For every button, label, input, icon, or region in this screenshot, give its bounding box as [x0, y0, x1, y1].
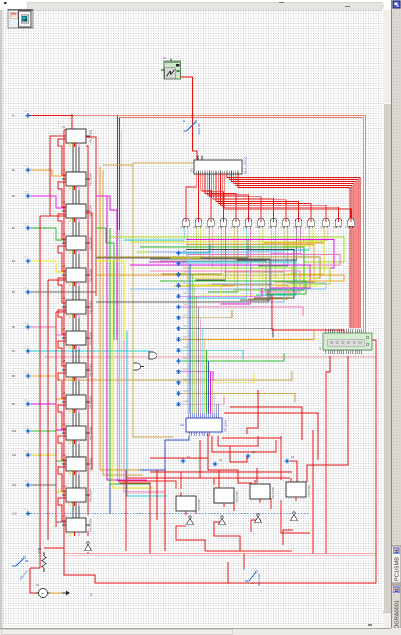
wire probe Q10 — [182, 350, 244, 359]
counter IC U1 74LS193N — [62, 126, 93, 143]
wire chip pin 18 to connector — [234, 174, 354, 328]
probe P4 — [12, 224, 30, 231]
wire gate input D2 — [158, 228, 188, 247]
svg-text:U20: U20 — [191, 168, 194, 173]
AND gate G10 — [293, 218, 302, 230]
wire chain U10-U11 — [72, 440, 74, 457]
vertical scrollbar — [383, 10, 392, 628]
wire red loop U10-U11 — [58, 436, 66, 460]
wire weave W14 — [96, 275, 344, 281]
wire red loop U8-U9 — [58, 373, 66, 398]
wire probe P2 — [31, 170, 66, 176]
wire red net N20 — [228, 562, 376, 583]
wire bus to U21 pin 10 — [205, 350, 207, 413]
AND gate G8 — [268, 218, 277, 230]
wire gate input D9 — [174, 228, 234, 286]
wire bus left L4 — [110, 228, 150, 484]
wire bus to U21 pin 12 — [210, 372, 212, 414]
probe Q9 — [176, 336, 187, 341]
wire bus to U21 pin 1 — [187, 253, 189, 414]
svg-text:2.5V: 2.5V — [24, 509, 29, 511]
wire pink band lower 1 — [64, 553, 376, 555]
probe P13 — [12, 481, 30, 488]
svg-text:U38: U38 — [281, 226, 286, 229]
switch S2 — [243, 567, 261, 586]
wire red net N43 — [214, 522, 240, 551]
svg-text:M: M — [243, 567, 245, 571]
buffer A2 — [218, 516, 225, 525]
wire red net N38 — [44, 547, 64, 549]
wire U12 bottom stubs — [69, 502, 71, 506]
svg-text:74LS74N: 74LS74N — [271, 487, 275, 499]
wire bus to U21 pin 16 — [218, 404, 220, 414]
wire probe Q9 — [182, 331, 315, 339]
probe Q3 — [176, 272, 187, 277]
counter IC U10 74LS193N — [62, 423, 93, 440]
wire probe Q7 — [182, 310, 233, 318]
wire probe P11 — [31, 431, 66, 461]
wire top rail A — [72, 116, 366, 335]
probe P3 — [12, 192, 30, 199]
AND gate G7 — [256, 218, 265, 230]
wire chain U5-U6 — [72, 282, 74, 300]
wire U8 bottom stubs — [69, 377, 71, 381]
AND gate G3 — [206, 218, 215, 230]
wire weave W18 — [130, 283, 326, 289]
wire probe Q2 — [182, 264, 252, 273]
wire red net N7 — [120, 483, 151, 554]
buffer A5 — [84, 542, 91, 551]
wire red loop U11-U12 — [58, 467, 66, 491]
IC U22 — [176, 492, 201, 515]
probe Q12 — [176, 369, 188, 374]
wire gate input D1 — [124, 228, 184, 240]
AND gate G9 — [281, 218, 290, 230]
wire red net N14 — [287, 461, 297, 482]
svg-text:2.5V: 2.5V — [24, 372, 29, 374]
clock source X1 — [161, 57, 181, 79]
wire U9 bottom stubs — [69, 409, 71, 413]
wire red net N11 — [200, 440, 214, 485]
wire U4 bottom stubs — [69, 250, 71, 254]
wire U1 left feedback — [44, 136, 66, 216]
svg-text:2.5V: 2.5V — [24, 427, 29, 429]
wire red net N4 — [212, 436, 276, 452]
wire red net N28 — [150, 457, 208, 459]
wire gate input D13 — [199, 228, 259, 296]
wire red net N8 — [125, 470, 127, 551]
connector J2 — [318, 329, 372, 354]
wire bus to U21 pin 9 — [203, 339, 205, 413]
svg-text:U32: U32 — [206, 226, 211, 229]
wire bus to U21 pin 14 — [214, 393, 216, 413]
wire red net N18 — [281, 500, 310, 533]
wire probe P13 — [31, 485, 66, 522]
probe R1 — [181, 456, 191, 463]
wire red net N21 — [205, 550, 292, 552]
wire weave W10 — [186, 262, 296, 295]
svg-text:U42: U42 — [333, 226, 338, 229]
wire red net N41 — [270, 498, 272, 509]
AND gate G4 — [218, 218, 227, 230]
svg-text:2.5V: 2.5V — [24, 166, 29, 168]
wire chip pin 2 to gate 2 — [197, 174, 199, 218]
wire chip pin 5 to gate 5 — [205, 174, 236, 218]
svg-text:U34: U34 — [231, 226, 236, 229]
svg-text:74LS244: 74LS244 — [224, 420, 228, 432]
wire red net N22 — [243, 554, 245, 569]
right vertical tab 2 — [392, 585, 401, 631]
wire probe P9 — [31, 376, 66, 399]
wire tan upper jog — [103, 163, 216, 180]
wire chip pin 10 to gate 10 — [216, 174, 299, 218]
wire pink band lower 2 — [66, 555, 376, 557]
probe Q8 — [176, 326, 187, 331]
wire gate input D12 — [220, 228, 250, 304]
counter IC U9 74LS193N — [62, 392, 93, 409]
buffer A4 — [290, 512, 297, 521]
floating icon panel — [8, 10, 33, 29]
wire chip pin 14 to gate 14 — [225, 174, 351, 218]
probe R2 — [213, 459, 223, 466]
wire red loop U6-U7 — [58, 310, 66, 334]
counter IC U5 74LS193N — [62, 265, 93, 282]
blue IC U21 — [180, 414, 228, 437]
wire U1 top to rail — [71, 116, 73, 130]
svg-text:IN: IN — [12, 115, 15, 118]
wire weave W1 — [110, 237, 344, 262]
svg-text:B12: B12 — [12, 484, 17, 487]
svg-text:OGRA0001: OGRA0001 — [395, 600, 401, 629]
probe Q11 — [176, 358, 188, 363]
probe Q1 — [176, 250, 187, 255]
wire chip pin 13 to gate 13 — [223, 174, 339, 218]
wire probe Q5 — [182, 288, 263, 296]
svg-text:Space bar: Space bar — [197, 123, 201, 135]
svg-text:2.5V: 2.5V — [24, 288, 29, 290]
wire bus left L8 — [133, 163, 173, 437]
wire gate input D3 — [137, 228, 197, 252]
svg-text:K: K — [90, 592, 93, 597]
probe P2 — [12, 166, 30, 173]
wire gate input D14 — [233, 228, 263, 290]
svg-text:U21: U21 — [180, 424, 185, 427]
wire probe Q8 — [182, 329, 274, 338]
svg-text:2.5V: 2.5V — [24, 111, 29, 113]
IC U23 — [214, 484, 239, 507]
wire weave W3 — [130, 242, 324, 274]
probe R4 — [285, 456, 295, 463]
wire bus to U21 pin 7 — [199, 318, 201, 414]
wire probe P5 — [31, 261, 66, 272]
wire bus to U21 pin 5 — [195, 296, 197, 413]
wire probe Q4 — [182, 285, 222, 294]
wire red box-right R2 — [86, 213, 92, 470]
wire weave W6 — [186, 250, 294, 299]
wire red net N2 — [224, 413, 318, 460]
wire red box-right R1 — [86, 146, 88, 515]
switch J1 — [183, 119, 201, 135]
wire probe P8 — [31, 350, 150, 352]
probe P6 — [12, 288, 30, 295]
wire chain U2-U3 — [72, 186, 74, 204]
wire U3 bottom stubs — [69, 218, 71, 222]
wire U6 bottom stubs — [69, 314, 71, 318]
counter IC U7 74LS193N — [62, 328, 93, 345]
probe P1 — [12, 111, 30, 118]
top tab strip — [0, 0, 401, 10]
svg-text:74LS193N: 74LS193N — [89, 173, 93, 186]
svg-text:U10: U10 — [62, 423, 67, 426]
wire red net N39 — [195, 505, 197, 514]
wire weave W15 — [186, 278, 316, 286]
wire probe Q13 — [182, 375, 255, 383]
wire weave W12 — [186, 268, 330, 284]
svg-text:2.5V: 2.5V — [24, 400, 29, 402]
wire yellow jog — [96, 261, 124, 340]
svg-text:~: ~ — [41, 592, 44, 598]
bottom strip — [0, 628, 401, 635]
wire bus left L6 — [124, 300, 164, 492]
wire magenta jog — [96, 196, 117, 340]
buffer A3 — [254, 514, 261, 523]
svg-text:74LS74N: 74LS74N — [235, 491, 239, 503]
wire gate input D8 — [195, 228, 225, 280]
junction U1/rail — [71, 114, 73, 116]
wire red feedback F3 — [55, 312, 57, 527]
wire bus to U21 pin 8 — [201, 329, 203, 414]
wire probe P10 — [31, 404, 66, 430]
wire red net N36 — [87, 531, 89, 536]
wire chip pin 6 to gate 6 — [207, 174, 248, 218]
wire probe P4 — [31, 228, 66, 240]
wire red loop U4-U5 — [58, 246, 66, 271]
buffer A1 — [186, 516, 193, 525]
probe Q13 — [176, 380, 188, 385]
wire U1 bottom stubs — [69, 143, 71, 147]
svg-text:74LS74N: 74LS74N — [197, 499, 201, 511]
wire red loop U3-U4 — [58, 214, 66, 239]
counter IC U11 74LS193N — [62, 454, 93, 471]
wire weave W11 — [130, 265, 310, 288]
probe Q6 — [176, 304, 187, 309]
counter IC U12 74LS193N — [62, 485, 93, 502]
wire red net N1 — [218, 436, 258, 446]
probe P12 — [12, 451, 30, 458]
wire bus to U21 pin 11 — [208, 361, 210, 414]
wire chip pin 11 to gate 11 — [218, 174, 311, 218]
wire red net N25 — [312, 430, 314, 554]
wire probe P12 — [31, 455, 66, 492]
wire weave W13 — [150, 271, 300, 292]
AND gate G6 — [243, 218, 252, 230]
svg-text:2.5V: 2.5V — [24, 192, 29, 194]
wire probe Q3 — [182, 267, 293, 275]
wire chip pin 12 to gate 12 — [220, 174, 326, 218]
wire gate input D11 — [187, 228, 247, 298]
wire bus left L5 — [113, 261, 153, 488]
wire weave W2 — [186, 240, 334, 269]
AND gate G2 — [193, 218, 202, 230]
wire red net N34 — [30, 568, 38, 593]
wire chip pin 19 to connector — [236, 174, 352, 328]
wire weave W8 — [186, 255, 340, 266]
svg-text:U30: U30 — [181, 226, 186, 229]
probe P8 — [12, 347, 30, 354]
right vertical tab 1 (active) — [392, 546, 401, 583]
wire red net N6 — [118, 481, 177, 489]
AND gate G1 — [181, 218, 190, 230]
wire probe P7 — [31, 327, 66, 335]
wire red loop U7-U8 — [58, 341, 66, 366]
svg-text:U40: U40 — [306, 226, 311, 229]
wire red feedback F2 — [47, 280, 49, 540]
svg-text:B11: B11 — [12, 454, 17, 457]
probe Q14 — [176, 390, 188, 395]
svg-text:PC1/5MB: PC1/5MB — [395, 557, 401, 581]
wire red net N12 — [208, 434, 252, 483]
counter IC U6 74LS193N — [62, 297, 93, 314]
wire weave W16 — [160, 281, 306, 294]
wire grey double A — [150, 259, 270, 300]
probe R3 — [246, 451, 256, 458]
probe P5 — [12, 257, 30, 264]
wire red top rail A (probe segment) — [28, 115, 72, 117]
wire chain U6-U7 — [72, 314, 74, 331]
wire red loop U9-U10 — [58, 405, 66, 429]
wire bus to U21 pin 15 — [216, 404, 218, 413]
svg-text:74LS193N: 74LS193N — [89, 489, 93, 502]
wire red net N27 — [247, 390, 258, 434]
wire red net N31 — [218, 470, 220, 485]
wire red net N44 — [251, 520, 261, 532]
wire U7 bottom stubs — [69, 345, 71, 349]
wire red loop U12-U13 — [58, 498, 66, 521]
wire gate input D19 — [237, 228, 297, 260]
wire red net N5 — [272, 295, 344, 333]
wire chip pin 16 to connector — [229, 174, 358, 328]
svg-text:74LS74N: 74LS74N — [307, 485, 311, 497]
probe P11 — [12, 427, 30, 434]
switch S1 — [12, 557, 29, 581]
probe Q2 — [176, 261, 187, 266]
wire red loop U2-U3 — [58, 182, 66, 207]
wire red net N40 — [233, 500, 235, 511]
svg-text:U36: U36 — [256, 226, 261, 229]
wire gate input D24 — [298, 228, 328, 240]
canvas left edge — [0, 10, 3, 628]
arrow ground — [62, 591, 70, 596]
wire red net N16 — [326, 356, 330, 554]
svg-text:U35: U35 — [243, 226, 248, 229]
counter IC U13 74LS193N — [62, 515, 93, 532]
wire bus to U21 pin 6 — [197, 307, 199, 414]
wire U13 bottom stubs — [69, 532, 71, 536]
wire red box-right R3 — [86, 137, 96, 296]
wire probe Q12 — [182, 372, 214, 381]
counter IC U8 74LS193N — [62, 360, 93, 377]
right docking strip — [392, 0, 401, 635]
wire chip pin 1 to gate 1 — [186, 174, 196, 218]
wire red net N33 — [30, 567, 40, 569]
wire chain U4-U5 — [72, 250, 74, 268]
wire bus left L2 — [103, 170, 143, 475]
junction clock/rail — [192, 115, 194, 117]
wire chain U3-U4 — [72, 218, 74, 236]
wire chip pin 15 to connector — [227, 174, 360, 328]
wire U10 bottom stubs — [69, 440, 71, 444]
wire red net N42 — [176, 526, 205, 551]
wire gate input D21 — [249, 228, 309, 250]
wire gate input D10 — [208, 228, 238, 292]
AND gate G13 — [333, 218, 342, 230]
wire grey double B — [160, 261, 266, 296]
wire probe P14 dashed clear line — [31, 513, 310, 515]
wire red net N23 — [251, 583, 253, 584]
svg-text:U13: U13 — [62, 515, 67, 518]
wire red net N37 — [87, 552, 89, 554]
wire chip pin 9 to gate 9 — [214, 174, 286, 218]
wire red loop U1-U2 — [58, 139, 66, 175]
wire red loop U5-U6 — [58, 278, 66, 303]
wire chip pin 8 to gate 8 — [212, 174, 274, 218]
wire red feedback F4 — [63, 130, 65, 540]
probe Q15 — [176, 401, 188, 406]
AND gate G14 — [346, 218, 355, 230]
svg-text:2.5V: 2.5V — [24, 347, 29, 349]
svg-text:2.5V: 2.5V — [24, 481, 29, 483]
wire probe Q6 — [182, 307, 304, 316]
svg-text:Mirror Red: Mirror Red — [257, 573, 261, 586]
wire probe Q1 — [182, 245, 211, 253]
wire weave W17 — [186, 285, 288, 299]
wire red net N26 — [222, 437, 281, 439]
wire grey long — [96, 240, 248, 258]
wire gate input D18 — [258, 228, 288, 266]
wire gate input D16 — [245, 228, 275, 278]
IC U25 — [286, 478, 311, 501]
wire bus to U21 pin 13 — [212, 383, 214, 414]
source V1 — [36, 583, 50, 598]
wire pink long horizontal — [44, 356, 376, 358]
wire probe Q11 — [182, 353, 285, 361]
wire chain U7-U8 — [72, 345, 74, 363]
svg-text:74LS193N: 74LS193N — [89, 130, 93, 143]
wire gate input D6 — [183, 228, 213, 268]
svg-text:U39: U39 — [293, 226, 298, 229]
wire chain U8-U9 — [72, 377, 74, 395]
probe P10 — [12, 400, 30, 407]
wire chip pin 7 to gate 7 — [209, 174, 261, 218]
wire red net N17 — [280, 436, 282, 480]
wire red trunk A — [117, 116, 119, 231]
gate X2 — [133, 363, 144, 370]
wire gate input D4 — [170, 228, 200, 258]
wire U5 bottom stubs — [69, 282, 71, 286]
wire U2 bottom stubs — [69, 186, 71, 190]
probe Q7 — [176, 315, 187, 320]
wire gate input D17 — [224, 228, 284, 272]
wire red net N45 — [283, 530, 293, 545]
wire chain U9-U10 — [72, 409, 74, 426]
wire U11 bottom stubs — [69, 471, 71, 475]
probe P14 — [12, 509, 30, 516]
wire clock to chip — [181, 77, 198, 160]
svg-text:U41: U41 — [321, 226, 326, 229]
wire gate input D5 — [149, 228, 209, 262]
svg-text:U33: U33 — [218, 226, 223, 229]
svg-text:CLR: CLR — [12, 513, 17, 516]
